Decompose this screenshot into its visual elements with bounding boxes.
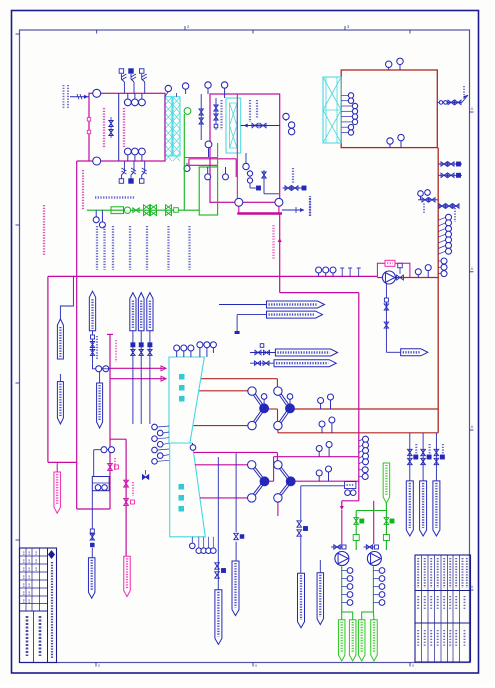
P2 drain chain: [90, 331, 95, 369]
svg-text:o: o: [412, 664, 414, 668]
probe B1: [215, 590, 222, 645]
riser instrument stack: [438, 214, 451, 276]
magenta left downcomer: [47, 276, 49, 462]
magenta heater box 1: [89, 93, 165, 161]
green loop rect: [199, 167, 217, 215]
label heater1 b: [123, 108, 125, 148]
boiler bottom instruments: [387, 134, 404, 147]
green probe G3: [358, 612, 373, 661]
valve row right of riser: [438, 204, 459, 208]
reheat drain triple: [406, 433, 444, 536]
top instr row: [182, 82, 227, 98]
heater2 nozzle circle B: [275, 198, 283, 206]
magenta condensate main: [48, 275, 378, 277]
magenta arrow to HP gland 2: [110, 376, 166, 381]
label left riser: [43, 205, 45, 255]
magenta crossover under hx: [189, 159, 236, 177]
magenta MP stub 3: [200, 497, 248, 499]
pump2 discharge: [372, 566, 374, 613]
flash tank lines: [94, 447, 115, 477]
cyan turbine element on boiler box: [323, 77, 341, 143]
green probe G1: [338, 612, 345, 661]
red pipe to pump: [377, 277, 438, 279]
probe P6: [57, 374, 63, 424]
instr circle hx drain: [184, 163, 190, 172]
red stub HP-2: [199, 390, 248, 392]
red stub HP-3: [194, 425, 249, 427]
instr red hdr 1: [318, 394, 334, 409]
svg-text:3: 3: [347, 24, 350, 29]
heater1 shell squares: [87, 118, 90, 134]
pump drain pipe label: [386, 349, 427, 356]
flag T4: [250, 360, 336, 367]
instr circles green loop: [205, 167, 229, 180]
title block (bottom-left) with logo and rotated text: [20, 548, 57, 663]
MP bottom instruments: [190, 537, 217, 554]
green probe G4: [371, 612, 378, 661]
MP stop valve linkage B: [274, 461, 295, 503]
flag T3: [250, 344, 338, 356]
left big pink probe: [54, 462, 61, 513]
red apex link: [269, 409, 278, 422]
cyan heat exchanger columns A: [165, 97, 180, 161]
magenta valve on loop: [108, 464, 119, 471]
MP cylinder trapezoid (zhong ya gang): [170, 443, 206, 537]
heater2 inner line: [236, 94, 238, 198]
svg-text:4: 4: [471, 585, 473, 589]
pump2 inlet valve: [364, 545, 379, 550]
heater2 inner chain: [214, 98, 218, 130]
magenta riser from heater2: [278, 214, 282, 293]
heater1 nozzle circle bottom: [93, 157, 101, 165]
heater1 inner valves: [109, 117, 113, 138]
heater1 inner tube line: [118, 93, 120, 161]
magenta line heater2 to bus: [239, 206, 279, 213]
magenta heater box 2: [210, 94, 280, 202]
instr mag hdr 1: [316, 442, 332, 457]
label above green main: [95, 196, 135, 199]
P2 instr pair: [96, 336, 116, 372]
green supply circle: [184, 108, 191, 211]
flag T1: [219, 301, 325, 308]
label aux right: [293, 168, 310, 216]
probe P3: [130, 293, 136, 331]
red cold reheat header: [278, 432, 438, 434]
probe B5: [88, 548, 95, 598]
red HP exhaust header: [295, 408, 439, 410]
magenta loop up leg: [107, 334, 113, 509]
magenta loop top jog: [110, 438, 126, 440]
magenta to pump1: [341, 510, 343, 549]
magenta drain bus (thick): [237, 212, 282, 215]
magenta lower jog: [340, 501, 359, 510]
flash tank drain: [90, 491, 94, 547]
instr on condensate main: [316, 267, 336, 276]
magenta jog to main riser: [280, 293, 359, 457]
boiler right outlet: [437, 95, 468, 105]
drain row 2: [438, 173, 462, 177]
heater1 top relief valves: [119, 69, 147, 94]
red riser pipe: [437, 148, 439, 433]
magenta loop bottom jog: [48, 461, 77, 463]
probe P2: [89, 291, 95, 331]
red vessel box (boiler): [341, 70, 437, 148]
probe P7: [97, 372, 103, 428]
magenta MP stub 2: [195, 464, 248, 466]
green valve w circle: [124, 207, 139, 213]
condensate pump 1: [335, 552, 349, 566]
black drain bowtie: [142, 470, 148, 479]
drain row 1: [438, 162, 462, 166]
heater2 nozzle circle A: [235, 198, 243, 206]
magenta MP stub 1: [194, 452, 278, 460]
instr mag hdr 2: [316, 466, 331, 481]
magenta MP headers: [274, 457, 359, 482]
svg-text:4: 4: [471, 107, 473, 111]
green strainer: [111, 207, 124, 214]
magenta valve drain leg 2: [124, 499, 135, 506]
HP stop valve linkage B: [274, 387, 295, 430]
red drop to cold reheat: [277, 430, 279, 433]
heater1 bottom relief valves: [119, 161, 147, 183]
MP drain valves 1: [215, 563, 226, 590]
red stub HP-1: [201, 379, 277, 387]
label gc right: [250, 100, 257, 122]
MP shell instr: [190, 443, 196, 450]
green probe G2: [342, 612, 356, 661]
green probe mid: [383, 463, 390, 503]
green pump suction: [383, 503, 394, 550]
MP drain line 1: [217, 457, 219, 563]
magenta arrow to HP gland 1: [110, 366, 166, 371]
magenta loop bottom: [77, 508, 110, 510]
label heater2 inner: [220, 100, 222, 130]
pump1 inlet valve: [331, 545, 346, 550]
tbars on condensate main: [340, 268, 361, 276]
instr on pump line: [415, 265, 431, 278]
magenta to pump2: [373, 501, 375, 544]
drain header w tank: [301, 482, 356, 496]
HP stop valve linkage A: [248, 387, 269, 430]
boiler internal level instruments: [341, 93, 357, 135]
probe B3: [298, 573, 305, 628]
vert line left of heater2: [199, 94, 203, 140]
heater1 top instr circles: [124, 93, 145, 106]
svg-text:o: o: [98, 664, 100, 668]
magenta main riser lower: [358, 456, 360, 501]
condensate pump 2: [367, 552, 381, 566]
heater1 bottom instr circles: [124, 148, 145, 161]
pump drain line: [384, 284, 388, 352]
magenta valve drain leg 1: [124, 480, 129, 487]
vent row: [418, 190, 439, 202]
labels right side: [424, 86, 464, 222]
green twin valve 1: [144, 205, 157, 216]
gc drain chain: [243, 153, 261, 190]
magenta drain leg: [125, 439, 127, 556]
label to-user: [309, 198, 311, 216]
LP crossover line: [297, 486, 308, 573]
svg-text:2: 2: [187, 24, 190, 29]
green top link: [184, 143, 217, 167]
MP stop valve linkage A: [248, 461, 269, 503]
probe B4: [317, 560, 324, 625]
HP gland supply lines: [131, 331, 152, 424]
MP drain line 2: [234, 453, 244, 561]
label inlet: [64, 85, 69, 109]
green branch: [353, 511, 386, 551]
pump recirculation loop: [377, 260, 410, 277]
aux valve pair right: [283, 186, 306, 190]
labels under green main: [97, 226, 190, 270]
cyan gland steam condenser column: [226, 98, 241, 153]
gland condenser outlet: [241, 123, 280, 127]
probe P4: [138, 293, 144, 331]
riser instrument stack 2: [359, 436, 369, 479]
probe P1: [57, 276, 73, 359]
gc instr circles: [283, 113, 295, 135]
label pink riser: [272, 225, 274, 260]
boiler top instruments: [386, 58, 404, 70]
HP top instruments: [174, 342, 217, 357]
drain pump: [383, 263, 404, 284]
gc drain chain 2: [262, 170, 279, 194]
instr red hdr 2: [319, 417, 335, 433]
label heater1 a: [103, 108, 105, 148]
heater1 nozzle circle top: [93, 89, 101, 97]
green main: [87, 209, 199, 211]
to-user arrow: [282, 207, 304, 213]
magenta left riser 2: [76, 161, 78, 509]
probe P5: [147, 293, 153, 331]
pump1 discharge: [341, 566, 343, 613]
magenta MP drop: [277, 502, 279, 516]
magenta apex link: [269, 457, 274, 482]
HP gland leakoff instruments: [152, 424, 169, 464]
probe B2: [232, 561, 239, 616]
green twin valve 2: [166, 205, 179, 216]
magenta stub to heater1: [77, 160, 89, 162]
HP cylinder trapezoid (gao ya gang): [169, 357, 204, 443]
pump discharge instruments: [342, 568, 385, 606]
label mag valves: [115, 458, 133, 496]
hx top connections: [165, 85, 177, 96]
flag T2: [235, 311, 323, 334]
pink probe bottom: [124, 556, 131, 596]
instr circle under heater2: [205, 141, 212, 157]
flash tank: [92, 477, 109, 491]
instr circles under green main: [93, 210, 105, 228]
feedwater inlet arrow: [70, 94, 89, 99]
label left top: [82, 170, 84, 210]
svg-text:o: o: [255, 664, 257, 668]
parameter table (bottom-right) with rotated text: [415, 555, 471, 662]
svg-text:4: 4: [471, 425, 473, 429]
svg-text:4: 4: [471, 267, 473, 271]
